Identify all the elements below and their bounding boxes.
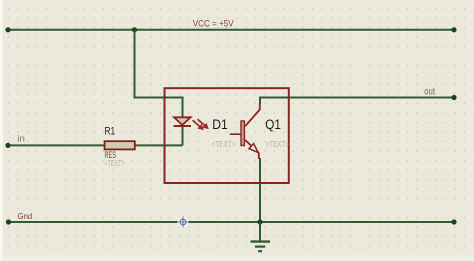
svg-text:R1: R1 — [105, 126, 116, 138]
node Gnd left terminal — [6, 219, 11, 224]
optocoupler box U1 — [165, 88, 289, 183]
wire out rail — [260, 98, 454, 105]
svg-text:in: in — [17, 134, 25, 145]
svg-text:<TEXT>: <TEXT> — [105, 158, 125, 168]
node VCC left terminal — [5, 27, 10, 32]
emitter lead — [245, 140, 259, 159]
wire Gnd rail — [9, 221, 455, 223]
svg-text:D1: D1 — [212, 117, 228, 132]
wire LED cathode drop — [182, 126, 184, 145]
transistor Q1 — [230, 104, 260, 160]
base lead — [230, 133, 241, 135]
svg-text:<TEXT>: <TEXT> — [266, 139, 289, 149]
svg-text:<TEXT>: <TEXT> — [212, 139, 236, 149]
wire from VCC junction to LED anode — [135, 30, 183, 116]
svg-text:Q1: Q1 — [265, 117, 281, 132]
wire emitter to ground rail — [259, 158, 261, 222]
svg-text:out: out — [424, 86, 435, 97]
wire in rail through R1 — [8, 144, 183, 146]
origin marker — [177, 216, 188, 227]
LED light arrow 2 — [198, 119, 209, 129]
svg-text:VCC = +5V: VCC = +5V — [193, 18, 235, 28]
base bar — [241, 121, 244, 146]
svg-text:Gnd: Gnd — [18, 211, 33, 221]
resistor R1 — [105, 141, 135, 149]
node VCC junction — [132, 27, 137, 32]
LED D1 — [174, 117, 191, 126]
node out terminal — [451, 95, 456, 100]
emitter arrowhead — [249, 144, 258, 153]
node emitter-ground junction — [257, 219, 262, 224]
node in terminal — [5, 143, 10, 148]
node Gnd right terminal — [451, 219, 456, 224]
LED light arrow 1 — [193, 120, 204, 130]
node VCC right terminal — [451, 27, 456, 32]
ground — [251, 222, 271, 251]
wire VCC rail — [8, 29, 454, 31]
collector lead — [245, 104, 260, 127]
